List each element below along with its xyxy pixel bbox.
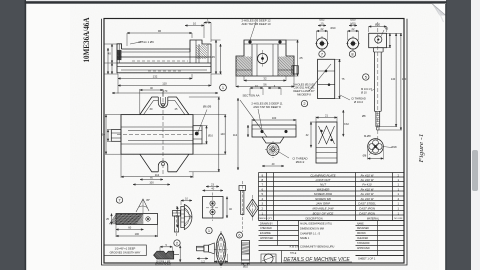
- svg-text:DRAWN: DRAWN: [357, 232, 366, 235]
- svg-text:Figure -1: Figure -1: [418, 134, 425, 164]
- svg-text:Ø16×2: Ø16×2: [296, 160, 305, 164]
- svg-text:1: 1: [208, 228, 210, 233]
- sliding block screw hole: [258, 54, 268, 64]
- svg-text:2: 2: [176, 240, 178, 245]
- svg-text:96: 96: [158, 29, 162, 33]
- svg-text:Fe 410 W: Fe 410 W: [361, 192, 374, 196]
- title block right cells: [356, 221, 405, 256]
- screw rod left labels: [361, 87, 374, 138]
- svg-text:SHEET 1 OF 1: SHEET 1 OF 1: [358, 257, 376, 261]
- title block middle notes: [300, 223, 332, 241]
- svg-text:ITEM NO: ITEM NO: [258, 218, 267, 220]
- svg-text:Fe 410 W: Fe 410 W: [361, 187, 374, 191]
- body plan right nose: [193, 126, 214, 144]
- drawing frame inner border: [104, 19, 404, 264]
- body plan view outline: [117, 92, 196, 175]
- svg-text:10: 10: [193, 22, 197, 26]
- svg-text:Fe 410 W: Fe 410 W: [361, 178, 374, 182]
- scan speckle texture: [0, 0, 1, 1]
- logo emblem: [261, 254, 276, 263]
- svg-text:6: 6: [238, 232, 240, 237]
- scrollbar thumb: [472, 150, 478, 191]
- balloon 2 bottom: [174, 240, 180, 246]
- svg-text:Ø18: Ø18: [391, 145, 397, 149]
- svg-text:CLAMPING PLATE: CLAMPING PLATE: [310, 173, 335, 177]
- svg-text:CAST IRON: CAST IRON: [359, 206, 376, 210]
- vice body bottom dimension lines: [112, 74, 218, 94]
- svg-text:112: 112: [155, 173, 160, 177]
- sheet cell: [356, 256, 405, 261]
- svg-text:MOVABLE JAW: MOVABLE JAW: [312, 206, 333, 210]
- svg-text:NO OFF: NO OFF: [394, 218, 403, 220]
- svg-text:60: 60: [102, 132, 106, 136]
- svg-text:CHECKED: CHECKED: [357, 238, 369, 240]
- svg-text:ANJALI DESHPANDE (VTU): ANJALI DESHPANDE (VTU): [300, 223, 332, 226]
- body plan right dimensions: [189, 97, 226, 172]
- svg-text:1.2: 1.2: [201, 261, 205, 264]
- vice body top dimension lines: [127, 19, 211, 46]
- clamp plate dims: [203, 183, 233, 218]
- screw rod dimensions right: [379, 33, 407, 130]
- sliding block bottom dimensions: [236, 76, 294, 87]
- movable jaw dimensions: [247, 116, 296, 137]
- svg-text:EXAMINE: EXAMINE: [260, 232, 271, 235]
- vice body right dimension lines: [211, 40, 222, 74]
- svg-text:Ø8: Ø8: [363, 154, 367, 158]
- vice body left dimension lines: [105, 44, 119, 74]
- svg-text:DRAWN BY: DRAWN BY: [260, 222, 273, 225]
- page top edge dark bar: [25, 1, 447, 4]
- svg-text:Ø16: Ø16: [208, 135, 213, 138]
- balloon 7 jaw grip: [116, 197, 122, 203]
- svg-text:BODY OF VICE: BODY OF VICE: [313, 211, 334, 215]
- svg-text:8: 8: [351, 51, 353, 56]
- svg-text:APPROVED: APPROVED: [357, 247, 370, 250]
- sliding block right dimension: [286, 40, 303, 76]
- svg-text:140: 140: [220, 132, 225, 136]
- svg-text:56: 56: [263, 83, 267, 87]
- svg-text:32: 32: [263, 77, 267, 81]
- svg-text:7: 7: [321, 51, 323, 56]
- svg-text:DIMENSIONS IN MM: DIMENSIONS IN MM: [300, 227, 324, 230]
- jaw grip crosshatch: [109, 214, 143, 224]
- washer part view: [315, 18, 336, 52]
- body plan bottom dimension: [121, 154, 193, 178]
- svg-text:110: 110: [162, 82, 167, 86]
- movable jaw side view: [316, 122, 337, 163]
- screw rod thread lines: [376, 113, 380, 126]
- clamp plate with two holes: [203, 193, 224, 222]
- svg-text:CAST STEEL: CAST STEEL: [358, 201, 376, 205]
- handle lens end view: [214, 231, 228, 268]
- svg-text:CAST IRON: CAST IRON: [359, 211, 376, 215]
- title cell details of machine vice: [282, 251, 353, 264]
- screw end diamond view: [247, 195, 259, 221]
- svg-text:CHECKED: CHECKED: [260, 227, 272, 230]
- movable jaw side dims: [306, 110, 350, 148]
- body plan left nose: [107, 130, 121, 142]
- svg-text:2: 2: [303, 101, 305, 106]
- movable jaw hatch in circle: [269, 146, 278, 154]
- svg-text:QTY: QTY: [268, 218, 273, 220]
- handle lens dims: [197, 254, 228, 267]
- vertical dimension 112: [233, 98, 239, 170]
- movable jaw top bar: [252, 109, 296, 137]
- svg-text:K32: K32: [344, 122, 349, 126]
- svg-text:Ø6 Ø9: Ø6 Ø9: [203, 105, 212, 109]
- body plan hole with leader: [195, 105, 211, 136]
- screw rod head: [369, 23, 389, 48]
- svg-text:DESCRIPTION: DESCRIPTION: [305, 217, 322, 220]
- thread note text upper: [340, 95, 366, 104]
- lock nut part view: [346, 18, 360, 52]
- svg-text:25: 25: [299, 56, 303, 60]
- balloon 7 washer: [319, 51, 325, 57]
- svg-text:45: 45: [212, 55, 216, 59]
- small screw front view: [239, 181, 246, 232]
- svg-text:10ME36A/46A: 10ME36A/46A: [81, 17, 91, 63]
- svg-text:M 10×1.5: M 10×1.5: [361, 87, 373, 91]
- svg-text:Ø 10: Ø 10: [361, 91, 367, 95]
- svg-text:SCREW ROD: SCREW ROD: [314, 192, 333, 196]
- svg-text:1: 1: [222, 85, 224, 90]
- svg-text:R5: R5: [385, 27, 389, 31]
- svg-text:TITLE: TITLE: [290, 253, 297, 255]
- svg-text:NUT: NUT: [320, 182, 326, 186]
- jaw plate note text: [293, 82, 315, 96]
- page corner fold: [432, 4, 446, 16]
- thread note text: [262, 152, 308, 167]
- grooves note box: [104, 245, 147, 256]
- serration section bar: [153, 244, 181, 267]
- page right edge: [445, 4, 446, 270]
- svg-text:100: 100: [272, 116, 277, 120]
- screw rod shank: [374, 22, 384, 141]
- svg-text:Ø10: Ø10: [243, 266, 248, 269]
- svg-text:M-Ø8: M-Ø8: [364, 134, 371, 138]
- svg-text:STANDARD: STANDARD: [357, 242, 370, 245]
- parts list table: [258, 173, 404, 221]
- svg-text:170: 170: [163, 89, 168, 93]
- svg-text:NAME: NAME: [357, 222, 364, 225]
- jaw grip 45deg chamfer note: [136, 198, 150, 213]
- svg-text:MATERIAL: MATERIAL: [367, 217, 380, 220]
- svg-text:170: 170: [402, 77, 407, 81]
- scrollbar track: [471, 0, 480, 270]
- vice body hatching right: [196, 45, 207, 59]
- svg-text:Ø22: Ø22: [319, 18, 325, 22]
- jaw grip bottom dims: [106, 214, 157, 238]
- section line leader: [240, 100, 267, 137]
- balloon 8 lock nut: [349, 51, 355, 57]
- college name line: [259, 245, 356, 251]
- svg-text:45°: 45°: [146, 198, 150, 202]
- balloon 1 bottom: [206, 227, 212, 233]
- svg-text:NAME 1: NAME 1: [300, 237, 310, 240]
- body plan left dimension: [102, 115, 121, 155]
- vice body side elevation outline: [117, 40, 211, 73]
- svg-text:JAW GRIP: JAW GRIP: [316, 201, 330, 205]
- screw knob end view: [363, 139, 397, 160]
- balloon 6: [237, 232, 243, 238]
- sliding block T-section view: [236, 40, 294, 76]
- screw m6 side small part: [173, 206, 181, 236]
- svg-text:SERRATIONS: SERRATIONS: [155, 264, 171, 267]
- svg-text:WASHER: WASHER: [317, 187, 331, 191]
- jaw grip dimension top: [133, 176, 170, 186]
- svg-text:140: 140: [391, 77, 396, 81]
- svg-text:100: 100: [135, 232, 140, 236]
- svg-text:Ø 16×2: Ø 16×2: [354, 100, 363, 104]
- square nut end view: [292, 66, 298, 74]
- jaw plate right dimension: [335, 59, 345, 98]
- hex bolt with thread section: [242, 241, 250, 269]
- svg-text:Fe 410 W: Fe 410 W: [361, 197, 374, 201]
- sliding block hatching: [237, 57, 252, 76]
- jaw plate front view: [309, 59, 335, 98]
- balloon 2 movable jaw: [301, 100, 307, 106]
- svg-text:SECTION AA: SECTION AA: [243, 94, 260, 98]
- svg-text:1/2×45°×1 DEEP: 1/2×45°×1 DEEP: [115, 246, 136, 250]
- handle end screw: [197, 243, 215, 254]
- svg-text:7: 7: [118, 197, 120, 202]
- drawing frame outer border: [102, 19, 408, 265]
- svg-text:Ø8: Ø8: [362, 114, 366, 118]
- svg-text:AND TAP M6 DEEP 10: AND TAP M6 DEEP 10: [241, 22, 270, 26]
- svg-text:Fe 410 W: Fe 410 W: [361, 173, 374, 177]
- svg-text:LOCK NUT: LOCK NUT: [316, 178, 331, 182]
- jaw grip bar with serration: [116, 214, 158, 225]
- handle fan view: [177, 198, 192, 230]
- movable jaw lower funnel: [262, 137, 284, 158]
- balloon 5 screw rod: [363, 74, 369, 80]
- svg-text:M10: M10: [350, 22, 356, 26]
- svg-text:Fe 410: Fe 410: [362, 182, 372, 186]
- page left edge: [25, 0, 27, 270]
- svg-text:CHAMFER 1:1 √3: CHAMFER 1:1 √3: [300, 231, 321, 235]
- svg-text:GROOVES ON BOTH WAY: GROOVES ON BOTH WAY: [110, 252, 141, 255]
- body plan top dimension: [140, 86, 163, 114]
- svg-text:112: 112: [233, 133, 238, 137]
- svg-text:AND TAP M6 DEEP 8: AND TAP M6 DEEP 8: [253, 105, 281, 109]
- svg-text:M6 DEEP 8: M6 DEEP 8: [297, 92, 311, 96]
- svg-text:SCREW M6: SCREW M6: [315, 197, 331, 201]
- vice body hatching left: [117, 50, 121, 60]
- svg-text:Ø20: Ø20: [350, 18, 356, 22]
- balloon 1 for body: [220, 84, 227, 91]
- svg-text:132: 132: [153, 75, 158, 79]
- svg-text:DESIGNED: DESIGNED: [357, 228, 369, 230]
- title block grid: [259, 221, 405, 251]
- svg-text:Ø10: Ø10: [331, 26, 336, 30]
- svg-text:K B S R COMMUNITY BENGALURU: K B S R COMMUNITY BENGALURU: [290, 245, 335, 249]
- sliding block top holes: [249, 22, 282, 44]
- svg-text:100: 100: [149, 181, 154, 185]
- svg-text:APPROVED: APPROVED: [260, 237, 274, 240]
